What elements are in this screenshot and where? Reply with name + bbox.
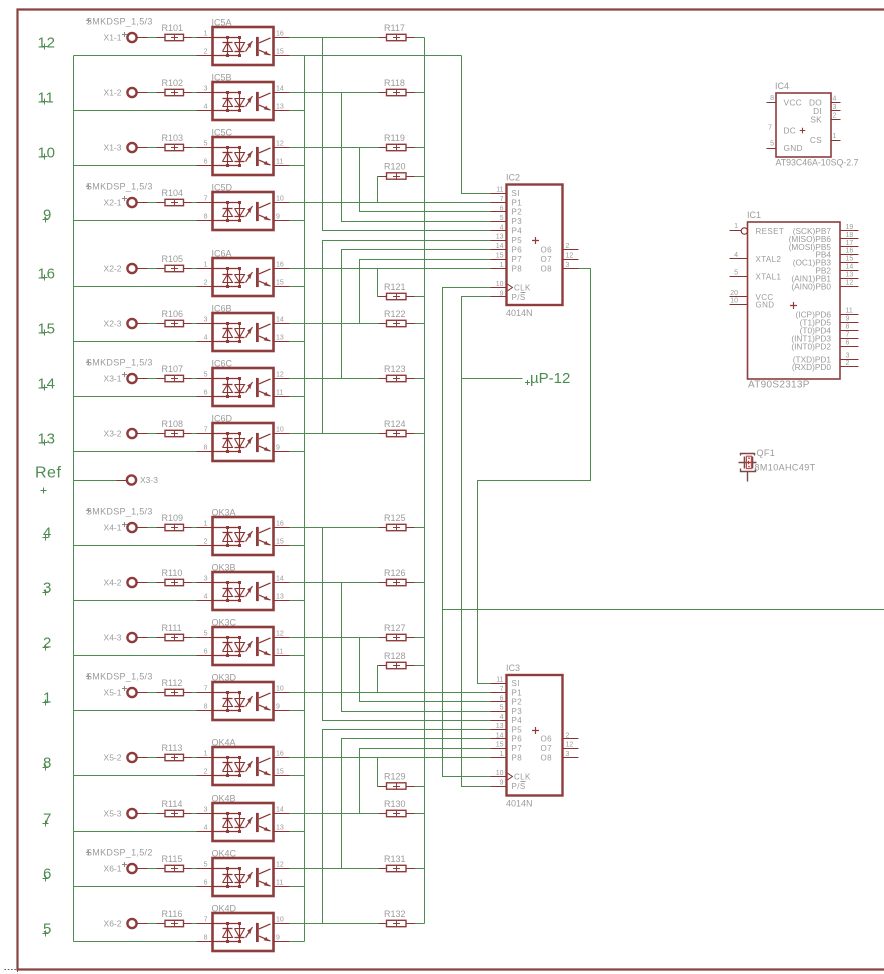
wire LED return to Ref bus bbox=[74, 55, 197, 57]
svg-text:12: 12 bbox=[38, 34, 56, 51]
svg-text:11: 11 bbox=[276, 159, 283, 166]
optocoupler OK3D bbox=[197, 673, 290, 721]
net label 9 bbox=[43, 217, 49, 223]
wire bbox=[137, 637, 148, 639]
wire pull-up to VCC bus bbox=[415, 868, 425, 870]
svg-text:O6: O6 bbox=[541, 735, 553, 744]
svg-text:8M10AHC49T: 8M10AHC49T bbox=[755, 463, 816, 473]
wire LED return to Ref bus bbox=[74, 165, 197, 167]
wire collector to pull-up bbox=[290, 378, 379, 380]
svg-text:9: 9 bbox=[276, 214, 280, 221]
svg-text:1: 1 bbox=[500, 262, 504, 269]
svg-text:R111: R111 bbox=[162, 623, 182, 633]
svg-text:7: 7 bbox=[204, 196, 208, 203]
label SMKDSP_1,5/3 bbox=[86, 508, 91, 513]
wire IC2.P3 from input row 2 bbox=[342, 93, 491, 222]
wire bbox=[137, 92, 148, 94]
svg-text:6: 6 bbox=[204, 880, 208, 887]
svg-text:16: 16 bbox=[846, 248, 854, 255]
svg-text:R104: R104 bbox=[162, 188, 184, 198]
eeprom IC4 bbox=[767, 81, 859, 168]
svg-text:5: 5 bbox=[500, 215, 504, 222]
wire bbox=[137, 147, 148, 149]
svg-text:4: 4 bbox=[734, 252, 738, 259]
wire pull-up to VCC bus bbox=[415, 37, 425, 39]
net label 10 bbox=[42, 154, 48, 160]
wire bbox=[184, 582, 192, 584]
svg-text:10: 10 bbox=[38, 144, 56, 161]
net label 2 bbox=[43, 645, 49, 651]
crystal QF1 bbox=[739, 448, 816, 482]
wire pull-up to VCC bus bbox=[415, 176, 425, 178]
optocoupler OK4B bbox=[197, 794, 290, 842]
wire CLK branch to edge bbox=[443, 609, 884, 611]
svg-text:R116: R116 bbox=[162, 909, 183, 919]
svg-text:P3: P3 bbox=[512, 707, 523, 716]
svg-text:X2-1: X2-1 bbox=[104, 198, 122, 208]
wire LED return to Ref bus bbox=[74, 286, 197, 288]
wire emitter bus bbox=[304, 56, 306, 942]
wire bbox=[137, 692, 148, 694]
svg-text:17: 17 bbox=[846, 240, 854, 247]
svg-text:4: 4 bbox=[204, 825, 208, 832]
wire bbox=[184, 868, 192, 870]
svg-text:SMKDSP_1,5/2: SMKDSP_1,5/2 bbox=[86, 848, 153, 858]
connector X1-3 bbox=[127, 143, 136, 152]
svg-text:P7: P7 bbox=[512, 255, 523, 264]
svg-text:13: 13 bbox=[846, 271, 854, 278]
wire bbox=[137, 323, 148, 325]
wire bbox=[137, 868, 148, 870]
svg-text:1: 1 bbox=[43, 689, 52, 706]
svg-text:R110: R110 bbox=[162, 568, 183, 578]
wire bbox=[137, 582, 148, 584]
svg-text:15: 15 bbox=[496, 253, 504, 260]
svg-text:O8: O8 bbox=[541, 753, 553, 762]
svg-text:R109: R109 bbox=[162, 513, 184, 523]
wire pull-up to VCC bus bbox=[415, 665, 425, 667]
svg-text:P8: P8 bbox=[512, 753, 523, 762]
wire bbox=[184, 268, 192, 270]
net label 1 bbox=[43, 700, 49, 706]
wire LED return to Ref bus bbox=[74, 710, 197, 712]
wire emitter bbox=[290, 886, 305, 888]
svg-text:12: 12 bbox=[566, 253, 574, 260]
svg-text:X6-1: X6-1 bbox=[104, 864, 122, 874]
svg-text:R107: R107 bbox=[162, 364, 184, 374]
svg-text:11: 11 bbox=[276, 649, 283, 656]
svg-text:SMKDSP_1,5/3: SMKDSP_1,5/3 bbox=[86, 358, 153, 368]
svg-text:R106: R106 bbox=[162, 309, 184, 319]
svg-text:X5-3: X5-3 bbox=[104, 809, 122, 819]
connector X2-2 bbox=[127, 264, 136, 273]
svg-text:X1-1: X1-1 bbox=[104, 33, 122, 43]
wire emitter bbox=[290, 655, 305, 657]
svg-text:O8: O8 bbox=[541, 264, 553, 273]
svg-text:CLK: CLK bbox=[514, 283, 531, 292]
svg-text:X3-2: X3-2 bbox=[104, 429, 122, 439]
wire collector to pull-up bbox=[290, 637, 379, 639]
svg-text:1: 1 bbox=[204, 31, 208, 38]
svg-text:R101: R101 bbox=[162, 23, 184, 33]
wire bbox=[137, 923, 148, 925]
svg-text:X2-3: X2-3 bbox=[104, 319, 122, 329]
svg-text:9: 9 bbox=[43, 207, 52, 224]
wire IC3.P4 from input row 9 bbox=[323, 528, 491, 721]
net label 16 bbox=[42, 275, 48, 281]
wire IC3.P6 from input row 15 bbox=[342, 739, 491, 869]
svg-text:12: 12 bbox=[566, 742, 574, 749]
svg-text:15: 15 bbox=[276, 49, 284, 56]
wire pull-up to VCC bus bbox=[415, 527, 425, 529]
svg-text:10: 10 bbox=[276, 917, 284, 924]
optocoupler OK3A bbox=[197, 508, 290, 556]
svg-text:R123: R123 bbox=[384, 364, 406, 374]
svg-text:P1: P1 bbox=[512, 688, 523, 697]
connector X6-2 bbox=[127, 919, 136, 928]
svg-text:P4: P4 bbox=[512, 227, 523, 236]
svg-text:5: 5 bbox=[204, 372, 208, 379]
wire pull-up to VCC bus bbox=[415, 147, 425, 149]
svg-text:R119: R119 bbox=[384, 133, 405, 143]
svg-text:R127: R127 bbox=[384, 623, 406, 633]
shift register IC2 bbox=[491, 173, 579, 319]
label SMKDSP_1,5/3 bbox=[86, 184, 91, 189]
svg-text:CS: CS bbox=[810, 135, 822, 145]
svg-text:9: 9 bbox=[500, 780, 504, 787]
svg-text:16: 16 bbox=[38, 265, 56, 282]
wire IC3.P5 from input row 16 bbox=[323, 730, 491, 924]
wire collector to pull-up bbox=[290, 37, 379, 39]
svg-text:SI: SI bbox=[512, 189, 520, 198]
svg-text:P2: P2 bbox=[512, 208, 523, 217]
optocoupler IC6A bbox=[197, 249, 290, 297]
wire bbox=[184, 923, 192, 925]
svg-text:DC: DC bbox=[784, 126, 797, 136]
svg-text:GND: GND bbox=[756, 301, 775, 310]
svg-text:8: 8 bbox=[204, 704, 208, 711]
svg-text:R121: R121 bbox=[384, 282, 406, 292]
svg-text:IC4: IC4 bbox=[775, 81, 789, 91]
wire IC2.O8 to IC3.SI cascade bbox=[478, 269, 591, 684]
svg-text:µP-12: µP-12 bbox=[530, 370, 570, 387]
svg-text:14: 14 bbox=[276, 807, 284, 814]
svg-text:RESET: RESET bbox=[756, 227, 785, 236]
wire emitter bbox=[290, 165, 305, 167]
svg-text:X6-2: X6-2 bbox=[104, 919, 122, 929]
svg-text:3: 3 bbox=[43, 579, 52, 596]
wire IC3.P1 from input row 12 bbox=[290, 692, 491, 694]
wire pull-up to VCC bus bbox=[415, 92, 425, 94]
svg-text:X3-1: X3-1 bbox=[104, 374, 122, 384]
optocoupler OK3C bbox=[197, 618, 290, 666]
svg-text:14: 14 bbox=[276, 86, 284, 93]
optocoupler IC5D bbox=[197, 183, 290, 231]
svg-text:4: 4 bbox=[204, 594, 208, 601]
svg-text:4014N: 4014N bbox=[506, 799, 533, 809]
svg-text:SMKDSP_1,5/3: SMKDSP_1,5/3 bbox=[86, 507, 153, 517]
svg-text:8: 8 bbox=[204, 214, 208, 221]
svg-text:P7: P7 bbox=[512, 744, 523, 753]
svg-text:R114: R114 bbox=[162, 799, 183, 809]
optocoupler IC6B bbox=[197, 304, 290, 352]
svg-text:7: 7 bbox=[768, 125, 772, 132]
svg-text:3: 3 bbox=[204, 317, 208, 324]
svg-text:10: 10 bbox=[496, 281, 504, 288]
svg-text:4: 4 bbox=[204, 335, 208, 342]
net label 14 bbox=[42, 385, 48, 391]
wire collector to pull-up bbox=[290, 147, 379, 149]
svg-text:11: 11 bbox=[276, 390, 283, 397]
wire emitter bbox=[290, 220, 305, 222]
svg-text:9: 9 bbox=[276, 445, 280, 452]
wire collector to pull-up bbox=[290, 527, 379, 529]
svg-text:10: 10 bbox=[276, 686, 284, 693]
wire LED return to Ref bus bbox=[74, 545, 197, 547]
wire bbox=[137, 527, 148, 529]
wire emitter bbox=[290, 600, 305, 602]
svg-text:14: 14 bbox=[846, 264, 854, 271]
svg-text:7: 7 bbox=[846, 332, 850, 339]
wire IC3.P8 from input row 13 bbox=[290, 757, 491, 759]
wire pull-up to VCC bus bbox=[415, 923, 425, 925]
wire IC2.P6 from input row 7 bbox=[342, 250, 491, 379]
svg-text:IC2: IC2 bbox=[506, 173, 520, 183]
svg-text:IC1: IC1 bbox=[747, 210, 761, 220]
svg-text:2: 2 bbox=[43, 634, 52, 651]
svg-text:16: 16 bbox=[276, 262, 284, 269]
wire bbox=[184, 527, 192, 529]
wire pull-up to VCC bus bbox=[415, 637, 425, 639]
svg-text:15: 15 bbox=[276, 769, 284, 776]
svg-text:3: 3 bbox=[566, 751, 570, 758]
svg-text:X5-2: X5-2 bbox=[104, 753, 122, 763]
svg-text:8: 8 bbox=[204, 935, 208, 942]
wire bbox=[137, 378, 148, 380]
svg-text:7: 7 bbox=[204, 427, 208, 434]
svg-text:15: 15 bbox=[846, 256, 854, 263]
connector X2-1 bbox=[127, 198, 136, 207]
svg-text:5: 5 bbox=[204, 862, 208, 869]
wire bbox=[184, 637, 192, 639]
svg-text:15: 15 bbox=[276, 280, 284, 287]
svg-text:SK: SK bbox=[810, 115, 822, 125]
wire Ref to bus bbox=[117, 480, 127, 482]
svg-text:5: 5 bbox=[500, 705, 504, 712]
svg-text:12: 12 bbox=[276, 372, 284, 379]
svg-text:11: 11 bbox=[846, 308, 853, 315]
svg-text:13: 13 bbox=[496, 234, 504, 241]
wire LED return to Ref bus bbox=[74, 110, 197, 112]
svg-text:7: 7 bbox=[500, 686, 504, 693]
svg-text:1: 1 bbox=[204, 521, 208, 528]
wire P/S bus bbox=[462, 297, 491, 787]
wire bbox=[184, 202, 192, 204]
connector X5-1 bbox=[127, 688, 136, 697]
svg-text:R115: R115 bbox=[162, 854, 183, 864]
wire bbox=[184, 37, 192, 39]
svg-text:2: 2 bbox=[204, 280, 208, 287]
svg-text:R105: R105 bbox=[162, 254, 184, 264]
svg-text:5: 5 bbox=[204, 141, 208, 148]
wire bbox=[137, 433, 148, 435]
net uP-12 stub bbox=[462, 378, 523, 380]
svg-text:X3-3: X3-3 bbox=[140, 475, 158, 485]
svg-text:8: 8 bbox=[846, 324, 850, 331]
svg-text:2: 2 bbox=[833, 113, 837, 120]
connector X3-2 bbox=[127, 429, 136, 438]
svg-text:2: 2 bbox=[204, 769, 208, 776]
svg-text:O7: O7 bbox=[541, 744, 553, 753]
svg-text:10: 10 bbox=[496, 770, 504, 777]
net label 13 bbox=[42, 440, 48, 446]
net label 12 bbox=[42, 44, 48, 50]
svg-text:SI: SI bbox=[512, 679, 520, 688]
svg-text:X5-1: X5-1 bbox=[104, 688, 122, 698]
optocoupler IC5C bbox=[197, 128, 290, 176]
wire bbox=[184, 813, 192, 815]
svg-text:11: 11 bbox=[38, 89, 55, 106]
wire CLK bus bbox=[443, 288, 491, 777]
svg-text:P6: P6 bbox=[512, 245, 523, 254]
wire IC3.P3 from input row 10 bbox=[342, 583, 491, 712]
svg-text:4: 4 bbox=[43, 524, 52, 541]
svg-text:R129: R129 bbox=[384, 772, 406, 782]
svg-text:7: 7 bbox=[204, 917, 208, 924]
svg-text:P2: P2 bbox=[512, 698, 523, 707]
svg-text:3: 3 bbox=[846, 353, 850, 360]
svg-text:18: 18 bbox=[846, 232, 854, 239]
svg-text:13: 13 bbox=[496, 723, 504, 730]
connector X2-3 bbox=[127, 319, 136, 328]
svg-text:7: 7 bbox=[204, 686, 208, 693]
svg-text:13: 13 bbox=[276, 594, 284, 601]
svg-text:GND: GND bbox=[784, 143, 803, 153]
svg-text:4014N: 4014N bbox=[506, 308, 533, 318]
svg-text:15: 15 bbox=[496, 742, 504, 749]
svg-text:2: 2 bbox=[204, 539, 208, 546]
label SMKDSP_1,5/3 bbox=[86, 674, 91, 679]
svg-text:R103: R103 bbox=[162, 133, 184, 143]
svg-text:3: 3 bbox=[833, 104, 837, 111]
wire pull-up to VCC bus bbox=[415, 378, 425, 380]
connector X4-2 bbox=[127, 578, 136, 587]
svg-text:11: 11 bbox=[496, 187, 503, 194]
wire bbox=[184, 757, 192, 759]
wire left common Ref bus bbox=[73, 56, 75, 942]
svg-text:R132: R132 bbox=[384, 909, 406, 919]
wire LED return to Ref bus bbox=[74, 886, 197, 888]
svg-text:X4-3: X4-3 bbox=[104, 633, 122, 643]
svg-text:X1-3: X1-3 bbox=[104, 143, 122, 153]
svg-text:10: 10 bbox=[276, 427, 284, 434]
svg-text:14: 14 bbox=[496, 732, 504, 739]
wire LED return to Ref bus bbox=[74, 396, 197, 398]
svg-text:16: 16 bbox=[276, 31, 284, 38]
wire bbox=[137, 37, 148, 39]
svg-text:7: 7 bbox=[43, 810, 52, 827]
connector X4-3 bbox=[127, 633, 136, 642]
svg-text:P1: P1 bbox=[512, 198, 523, 207]
wire IC3.P7 from input row 14 bbox=[360, 749, 491, 814]
wire pull-up to VCC bus bbox=[415, 433, 425, 435]
optocoupler IC6C bbox=[197, 359, 290, 407]
wire IC2.P1 from input row 4 bbox=[290, 202, 491, 204]
connector X1-2 bbox=[127, 88, 136, 97]
svg-text:P/S: P/S bbox=[512, 293, 526, 302]
wire pull-up jog bbox=[378, 177, 379, 203]
wire bbox=[137, 268, 148, 270]
net label 3 bbox=[43, 590, 49, 596]
connector X5-2 bbox=[127, 753, 136, 762]
wire collector to pull-up bbox=[290, 868, 379, 870]
svg-text:P3: P3 bbox=[512, 217, 523, 226]
svg-text:5: 5 bbox=[43, 920, 52, 937]
wire IC2.SI from row1 emitter bbox=[462, 56, 491, 194]
net label 15 bbox=[42, 330, 48, 336]
wire VCC pull-up bus bbox=[424, 38, 426, 924]
net label 7 bbox=[43, 821, 49, 827]
svg-text:R128: R128 bbox=[384, 651, 406, 661]
label SMKDSP_1,5/3 bbox=[86, 360, 91, 365]
net label Ref bbox=[41, 488, 47, 494]
svg-text:R112: R112 bbox=[162, 678, 183, 688]
svg-text:(INT0)PD2: (INT0)PD2 bbox=[791, 342, 831, 352]
svg-text:SMKDSP_1,5/3: SMKDSP_1,5/3 bbox=[86, 672, 153, 682]
wire bbox=[137, 757, 148, 759]
svg-text:O6: O6 bbox=[541, 245, 553, 254]
svg-text:3: 3 bbox=[566, 262, 570, 269]
svg-text:4: 4 bbox=[204, 104, 208, 111]
svg-text:3: 3 bbox=[204, 807, 208, 814]
svg-text:10: 10 bbox=[276, 196, 284, 203]
svg-text:4: 4 bbox=[500, 224, 504, 231]
wire emitter bbox=[290, 710, 305, 712]
svg-text:2: 2 bbox=[566, 732, 570, 739]
wire pull-up jog bbox=[378, 666, 379, 693]
wire IC2.P5 from input row 8 bbox=[323, 241, 491, 434]
label SMKDSP_1,5/3 bbox=[86, 18, 91, 23]
svg-text:IC3: IC3 bbox=[506, 663, 520, 673]
svg-text:7: 7 bbox=[500, 196, 504, 203]
svg-text:1: 1 bbox=[833, 133, 837, 140]
wire bbox=[184, 323, 192, 325]
wire bbox=[184, 147, 192, 149]
wire emitter bbox=[290, 941, 305, 943]
svg-text:VCC: VCC bbox=[784, 98, 802, 108]
optocoupler OK3B bbox=[197, 563, 290, 611]
svg-text:4: 4 bbox=[833, 96, 837, 103]
connector X1-1 bbox=[127, 33, 136, 42]
svg-text:P5: P5 bbox=[512, 725, 523, 734]
svg-text:14: 14 bbox=[496, 243, 504, 250]
svg-text:R108: R108 bbox=[162, 419, 184, 429]
wire emitter bbox=[290, 286, 305, 288]
svg-text:8: 8 bbox=[204, 445, 208, 452]
svg-text:AT93C46A-10SQ-2.7: AT93C46A-10SQ-2.7 bbox=[776, 158, 859, 168]
connector X5-3 bbox=[127, 809, 136, 818]
svg-text:12: 12 bbox=[276, 631, 284, 638]
svg-text:14: 14 bbox=[276, 576, 284, 583]
svg-text:SMKDSP_1,5/3: SMKDSP_1,5/3 bbox=[86, 17, 153, 27]
svg-text:2: 2 bbox=[204, 49, 208, 56]
svg-text:R117: R117 bbox=[384, 23, 405, 33]
svg-text:R120: R120 bbox=[384, 162, 406, 172]
svg-text:13: 13 bbox=[276, 825, 284, 832]
wire pull-up to VCC bus bbox=[415, 813, 425, 815]
wire emitter bbox=[290, 545, 305, 547]
svg-text:12: 12 bbox=[276, 862, 284, 869]
